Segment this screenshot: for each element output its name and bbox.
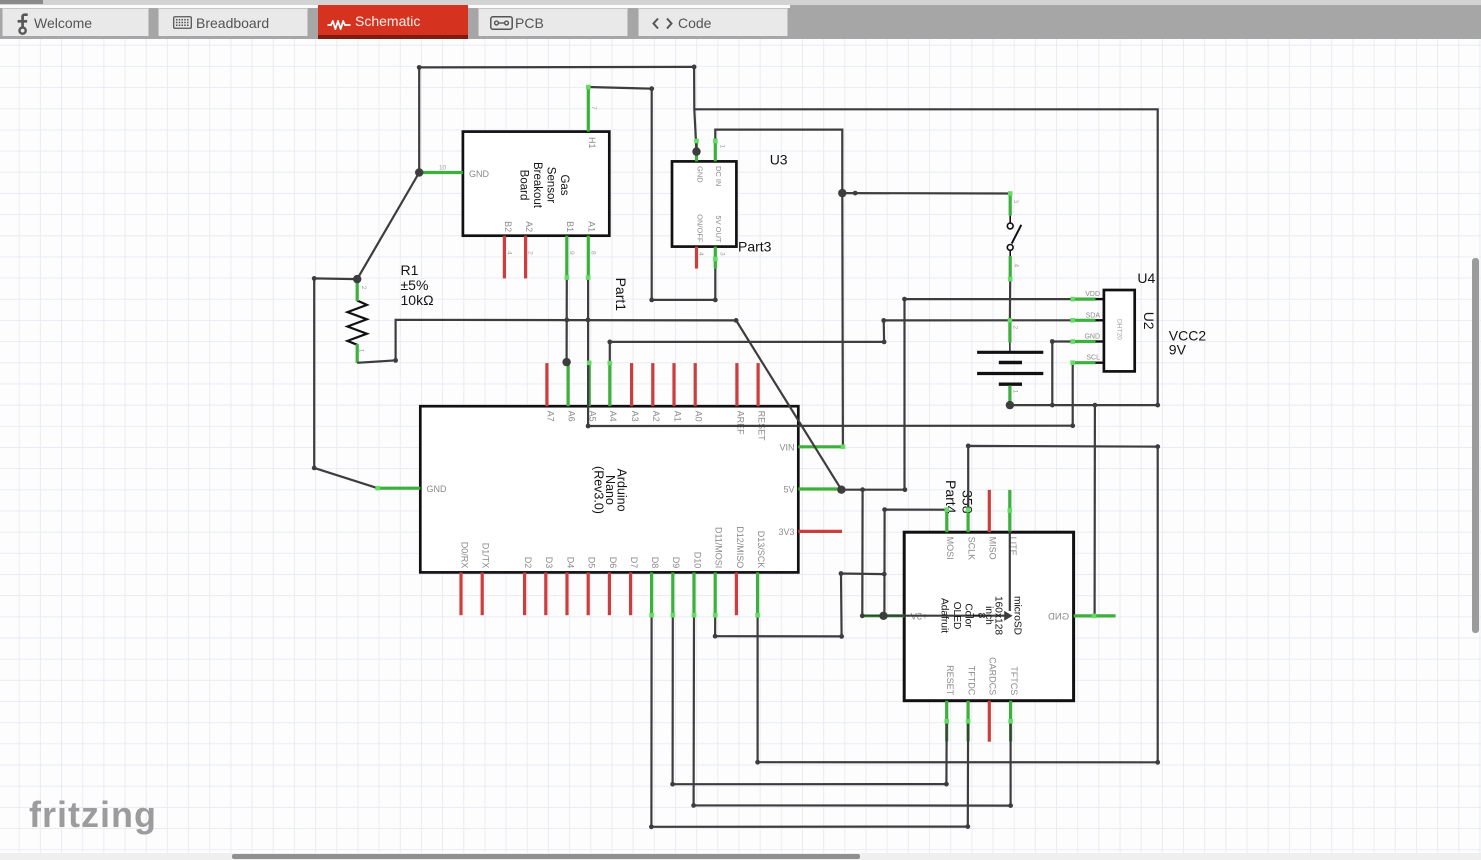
- junction U3 GND pin: [692, 147, 700, 155]
- cursor arrow at wire drag point: [1004, 611, 1012, 621]
- switch contact circle bottom: [1007, 245, 1013, 251]
- svg-text:4: 4: [697, 252, 704, 256]
- connection Arduino VIN end: [841, 445, 846, 450]
- wire switch junction down to Arduino VIN: [841, 193, 844, 447]
- junction battery minus: [1006, 401, 1014, 409]
- svg-text:AREF: AREF: [735, 411, 745, 436]
- svg-text:5V: 5V: [783, 485, 794, 495]
- svg-text:A3: A3: [630, 411, 640, 422]
- battery pin 2 lead: [1009, 342, 1011, 353]
- bend D10 wire: [691, 803, 696, 808]
- bend U4 GND wire: [1050, 339, 1055, 344]
- svg-text:GND: GND: [427, 484, 448, 494]
- connection battery pin 2 top: [1008, 318, 1013, 323]
- Arduino pin AREF: [735, 363, 738, 406]
- Arduino pin 5V: [798, 487, 841, 490]
- svg-text:SCLK: SCLK: [967, 537, 977, 561]
- bend GND loop top: [312, 276, 317, 281]
- connection OLED RESET mid: [944, 719, 949, 724]
- bend VDD wire top: [902, 297, 907, 302]
- svg-text:D8: D8: [650, 557, 660, 569]
- bend SCLK wire top: [966, 444, 971, 449]
- svg-text:5V OUT: 5V OUT: [714, 215, 723, 243]
- connection gas A1 end: [586, 275, 591, 280]
- fritzing logo: [29, 794, 157, 836]
- svg-text:SDA: SDA: [1086, 312, 1101, 319]
- junction OLED +5V pin: [879, 612, 887, 620]
- Arduino pin 3V3: [798, 530, 842, 533]
- bend top-left: [417, 65, 422, 70]
- U3 pin GND: [695, 141, 698, 161]
- junction R1 top: [353, 275, 361, 283]
- svg-text:TFTDC: TFTDC: [967, 666, 977, 696]
- U4 pin VDD lead: [1094, 298, 1104, 300]
- bend D10 wire right: [1008, 803, 1013, 808]
- battery VCC2 pin 1: [1008, 386, 1011, 403]
- svg-text:7: 7: [590, 106, 597, 110]
- U4 pin SCL lead: [1094, 362, 1104, 364]
- connection U4 SDA end: [1070, 318, 1075, 323]
- connection Arduino bottom pin end: [755, 613, 760, 618]
- svg-text:3V3: 3V3: [778, 527, 794, 537]
- connection U4 GND end: [1070, 339, 1075, 344]
- connection U3 GND top: [694, 139, 699, 144]
- svg-text:VDD: VDD: [1085, 291, 1100, 298]
- Arduino pin RESET: [756, 363, 759, 406]
- connection gas H1 top: [586, 85, 591, 90]
- svg-text:D7: D7: [629, 557, 639, 569]
- Arduino pin A6: [566, 363, 569, 406]
- connection U3 DC IN top: [713, 139, 718, 144]
- battery plate long bottom: [977, 372, 1043, 375]
- wire GND net vertical from gas sensor GND junction: [418, 67, 420, 172]
- svg-text:8: 8: [589, 251, 596, 255]
- junction B1/A6: [562, 358, 570, 366]
- bend GND loop bottom: [312, 466, 317, 471]
- connection U3 5V OUT mid: [713, 257, 718, 262]
- svg-text:D12/MISO: D12/MISO: [735, 526, 745, 568]
- svg-text:inch: inch: [983, 606, 994, 625]
- U3 pin 5V OUT: [714, 247, 717, 269]
- svg-text:GND: GND: [1084, 334, 1100, 341]
- Arduino Nano body: [420, 406, 798, 572]
- svg-text:Adafruit: Adafruit: [939, 598, 950, 633]
- Arduino pin D10: [692, 572, 695, 615]
- svg-text:U4: U4: [1137, 270, 1155, 286]
- svg-text:ON/OFF: ON/OFF: [695, 214, 704, 243]
- svg-text:3: 3: [1012, 200, 1019, 204]
- Arduino pin A7: [545, 363, 548, 406]
- switch pin 3 lead: [1009, 216, 1011, 223]
- svg-text:B1: B1: [565, 221, 575, 232]
- svg-text:2: 2: [1012, 326, 1019, 330]
- svg-text:A4: A4: [608, 411, 618, 422]
- svg-text:GND: GND: [469, 169, 490, 179]
- OLED pin RESET: [945, 701, 948, 742]
- Arduino pin D6: [608, 572, 611, 615]
- junction D11 wire on MOSI column: [882, 572, 887, 577]
- OLED pin TFTCS: [1009, 701, 1012, 742]
- svg-text:microSD: microSD: [1012, 596, 1023, 635]
- switch pin 4 lead: [1009, 251, 1011, 257]
- wire Arduino D10 to OLED TFTCS: [694, 615, 1011, 805]
- connection switch pin 3 top: [1008, 191, 1013, 196]
- bend D11 wire at pin: [713, 634, 718, 639]
- bend +5V pin end: [860, 613, 865, 618]
- svg-text:1: 1: [1012, 390, 1019, 394]
- U4 pin SDA lead: [1094, 319, 1104, 321]
- gas sensor pin A1: [587, 236, 590, 278]
- OLED pin CARDCS: [988, 701, 991, 742]
- bend A1 wire inside Arduino: [586, 424, 591, 429]
- Arduino pin D7: [629, 572, 632, 615]
- connection OLED TFTDC mid: [966, 719, 971, 724]
- junction A1 wire / R1 wire: [586, 318, 591, 323]
- svg-text:VIN: VIN: [779, 443, 794, 453]
- svg-text:MISO: MISO: [988, 537, 998, 560]
- bend D8 wire: [649, 824, 654, 829]
- junction right rail / battery minus: [1155, 403, 1160, 408]
- wire Arduino D8 to OLED TFTDC: [651, 615, 968, 827]
- wire gas A1 across Arduino to U4 SCL: [588, 278, 1073, 426]
- switch pin 3: [1009, 194, 1012, 216]
- svg-text:D6: D6: [608, 557, 618, 569]
- bend D9 wire: [670, 782, 675, 787]
- svg-text:RESET: RESET: [945, 665, 955, 696]
- U4 pin VDD: [1073, 298, 1096, 301]
- svg-text:1: 1: [358, 349, 365, 353]
- svg-text:D3: D3: [544, 557, 554, 569]
- bend SCLK rail top: [1155, 444, 1160, 449]
- wire OLED SCLK around right side to Arduino D13: [758, 446, 1158, 762]
- switch pin 4: [1009, 256, 1012, 279]
- connection Arduino bottom pin end: [649, 613, 654, 618]
- svg-text:MOSI: MOSI: [945, 537, 955, 560]
- wire Arduino D11 over to OLED MOSI column: [715, 574, 884, 637]
- battery VCC2 pin 2: [1008, 320, 1011, 342]
- svg-text:2: 2: [527, 251, 534, 255]
- Arduino pin A3: [630, 363, 633, 406]
- connection switch pin 4 bottom: [1008, 277, 1013, 282]
- svg-text:D11/MOSI: D11/MOSI: [714, 527, 724, 568]
- svg-text:160x128: 160x128: [993, 596, 1004, 635]
- svg-text:Part3: Part3: [738, 239, 772, 255]
- connection U4 SCL end: [1070, 360, 1075, 365]
- Arduino pin A1: [672, 363, 675, 406]
- svg-text:A6: A6: [567, 411, 577, 422]
- wire Arduino 5V junction to VDD riser: [841, 489, 905, 491]
- svg-text:D5: D5: [587, 557, 597, 569]
- horizontal scrollbar: [0, 853, 1481, 860]
- OLED pin MISO: [988, 490, 991, 532]
- bend D11 wire upper: [839, 571, 844, 576]
- Arduino pin D8: [650, 572, 653, 615]
- junction SCL wire end: [1070, 423, 1075, 428]
- Arduino pin D1/TX: [481, 572, 484, 615]
- connection gas B1 end: [565, 275, 570, 280]
- resistor R1 pin 2: [356, 281, 359, 301]
- U3 pin DC IN: [714, 141, 717, 161]
- svg-text:D13/SCK: D13/SCK: [756, 531, 766, 569]
- svg-text:D9: D9: [671, 557, 681, 569]
- svg-text:4: 4: [506, 251, 513, 255]
- bend D13 wire: [755, 760, 760, 765]
- OLED pin MOSI: [945, 510, 948, 533]
- svg-text:A7: A7: [545, 411, 555, 422]
- Arduino pin D4: [565, 572, 568, 615]
- wire Arduino D9 to OLED RESET: [673, 615, 947, 784]
- svg-text:U2: U2: [1141, 312, 1157, 330]
- DHT sensor U4 body: [1104, 290, 1135, 371]
- U4 pin SDA: [1073, 319, 1096, 322]
- bend SCLK rail bottom: [1155, 760, 1160, 765]
- Arduino pin D12/MISO: [735, 572, 738, 615]
- bend MOSI wire top: [882, 507, 887, 512]
- bend top: [692, 65, 697, 70]
- gas sensor pin A2: [524, 236, 527, 279]
- power module U3 Part3 body: [672, 161, 736, 246]
- wire battery minus down to OLED GND: [1093, 405, 1096, 616]
- connection Arduino A4 top: [608, 361, 613, 366]
- svg-text:OLED: OLED: [951, 602, 962, 630]
- bend R1 pin1 wire: [393, 358, 398, 363]
- svg-text:4: 4: [1012, 264, 1019, 268]
- wire GND net loop to Arduino GND: [314, 278, 378, 488]
- Arduino pin A4: [608, 363, 611, 406]
- connection OLED GND mid: [1092, 614, 1097, 619]
- OLED pin TFTDC: [966, 701, 969, 742]
- svg-text:DHT20: DHT20: [1116, 319, 1123, 340]
- connection Arduino A5 top: [587, 361, 592, 366]
- vertical scrollbar thumb: [1472, 258, 1479, 633]
- bend H1 wire top: [649, 86, 654, 91]
- Arduino pin A0: [694, 363, 697, 406]
- bend H1 wire bottom: [649, 298, 654, 303]
- junction gas GND: [415, 168, 423, 176]
- Arduino pin D13/SCK: [756, 572, 759, 615]
- wire GND net diagonal to R1: [357, 173, 419, 280]
- svg-text:A2: A2: [524, 221, 534, 232]
- bend VIN diagonal start: [734, 318, 739, 323]
- Arduino pin D2: [523, 572, 526, 615]
- connection OLED LITE mid: [1008, 508, 1013, 513]
- wire U4 GND to battery minus: [1052, 342, 1072, 406]
- bend switch wire: [853, 191, 858, 196]
- junction switch/DC IN/VIN: [838, 189, 846, 197]
- gas sensor pin B2: [503, 236, 506, 279]
- switch lever: [1012, 225, 1022, 244]
- wire gas H1 to U3 5V OUT: [588, 87, 715, 300]
- bend D9 wire right: [944, 782, 949, 787]
- OLED pin GND: [1074, 614, 1116, 617]
- wire gas B1 down to Arduino A6: [565, 278, 567, 363]
- wire 5V branch down to OLED +5V pin: [861, 490, 863, 616]
- svg-text:D2: D2: [523, 557, 533, 569]
- wire MOSI column vertical: [883, 510, 885, 616]
- Arduino pin VIN: [798, 445, 843, 448]
- switch contact circle top: [1007, 223, 1013, 229]
- bend 5V OUT wire: [713, 298, 718, 303]
- gas sensor pin 7 H1: [587, 87, 590, 132]
- connection OLED SCLK top: [966, 507, 971, 512]
- battery plate long top: [977, 351, 1043, 354]
- wire battery minus to right rail: [1010, 404, 1158, 406]
- connection Arduino bottom pin end: [713, 613, 718, 618]
- wire from OLED +5V junction dragging right: [884, 615, 1005, 617]
- Arduino pin D0/RX: [459, 572, 462, 615]
- svg-text:GND: GND: [1048, 612, 1069, 623]
- svg-text:10: 10: [439, 165, 447, 172]
- svg-text:U3: U3: [770, 152, 788, 168]
- battery plate short: [999, 361, 1022, 364]
- gas sensor pin 10 GND: [419, 171, 463, 174]
- resistor R1: [348, 301, 367, 345]
- Arduino pin D5: [587, 572, 590, 615]
- wire switch pin 4 to battery pin 2: [1009, 279, 1011, 320]
- OLED pin LITE: [1008, 490, 1011, 532]
- junction B1 wire / R1 wire: [564, 318, 569, 323]
- wire switch junction to switch pin 3: [842, 192, 1010, 195]
- svg-text:2: 2: [360, 286, 367, 290]
- wire U3 DC IN up and over to switch junction: [715, 130, 842, 194]
- svg-text:9: 9: [568, 251, 575, 255]
- OLED pin +5V: [862, 614, 904, 617]
- Arduino pin A5: [588, 363, 591, 406]
- U3 pin ON/OFF: [695, 247, 698, 269]
- connection OLED MOSI top: [945, 507, 950, 512]
- bend D8 wire right: [965, 824, 970, 829]
- junction Arduino 5V: [837, 486, 845, 494]
- wire MOSI column to OLED MOSI pin: [885, 509, 947, 511]
- OLED display Part4 body: [904, 532, 1073, 701]
- connection U4 VDD end: [1070, 297, 1075, 302]
- connection Arduino GND end: [375, 486, 380, 491]
- gas sensor pin B1: [565, 236, 568, 278]
- gas sensor breakout board Part1 body: [463, 132, 609, 236]
- Arduino pin D3: [544, 572, 547, 615]
- svg-text:A1: A1: [672, 411, 682, 422]
- OLED pin SCLK: [966, 510, 969, 533]
- wire from OLED LITE pin dragging down: [1009, 531, 1011, 611]
- svg-text:Part1: Part1: [613, 278, 629, 312]
- wire GND net top horizontal: [419, 66, 694, 69]
- connection Arduino bottom pin end: [692, 613, 697, 618]
- svg-text:A1: A1: [587, 221, 597, 232]
- U4 pin GND: [1073, 340, 1096, 343]
- svg-text:3: 3: [718, 252, 725, 256]
- bend SDA wire top: [881, 318, 886, 323]
- svg-text:D0/RX: D0/RX: [459, 542, 469, 569]
- Arduino pin D9: [671, 572, 674, 615]
- Arduino pin A2: [651, 363, 654, 406]
- svg-text:A0: A0: [694, 411, 704, 422]
- svg-text:GND: GND: [695, 166, 704, 183]
- svg-text:A2: A2: [651, 411, 661, 422]
- svg-text:B2: B2: [503, 221, 513, 232]
- bend SDA wire bottom: [882, 340, 887, 345]
- connection OLED TFTCS mid: [1008, 719, 1013, 724]
- junction VDD riser on 5V wire: [903, 487, 908, 492]
- svg-text:CARDCS: CARDCS: [988, 657, 998, 695]
- bend A4 wire: [607, 340, 612, 345]
- bend D11 wire lower: [839, 634, 844, 639]
- Arduino pin D11/MOSI: [714, 572, 717, 615]
- resistor R1 pin 1: [356, 344, 359, 363]
- svg-text:H1: H1: [587, 137, 597, 149]
- svg-text:DC IN: DC IN: [714, 166, 723, 186]
- U4 pin GND lead: [1094, 340, 1104, 342]
- junction U4 GND on battery wire: [1050, 403, 1055, 408]
- Arduino pin GND: [378, 487, 421, 490]
- svg-text:SCL: SCL: [1086, 355, 1100, 362]
- svg-text:+5V: +5V: [910, 611, 928, 622]
- svg-text:1: 1: [719, 145, 726, 149]
- battery plate short bottom: [999, 383, 1022, 386]
- junction OLED GND on battery wire: [1093, 403, 1098, 408]
- wire GND net down to U3 GND pin: [694, 67, 696, 152]
- wire 5V up to U4 VDD: [905, 299, 1073, 490]
- junction 5V branch: [860, 487, 865, 492]
- svg-text:D10: D10: [692, 552, 702, 569]
- connection Arduino bottom pin end: [671, 613, 676, 618]
- svg-text:D4: D4: [565, 557, 575, 569]
- svg-text:D1/TX: D1/TX: [481, 543, 491, 569]
- wire GND net right rail to battery minus: [694, 109, 1157, 405]
- svg-text:TFTCS: TFTCS: [1009, 666, 1019, 695]
- wire Arduino A4 to U4 SDA: [610, 320, 1073, 363]
- wire overlay on +5V pin: [862, 615, 903, 617]
- wire R1 pin1 to Arduino 5V junction: [357, 320, 841, 490]
- U4 pin SCL: [1073, 361, 1096, 364]
